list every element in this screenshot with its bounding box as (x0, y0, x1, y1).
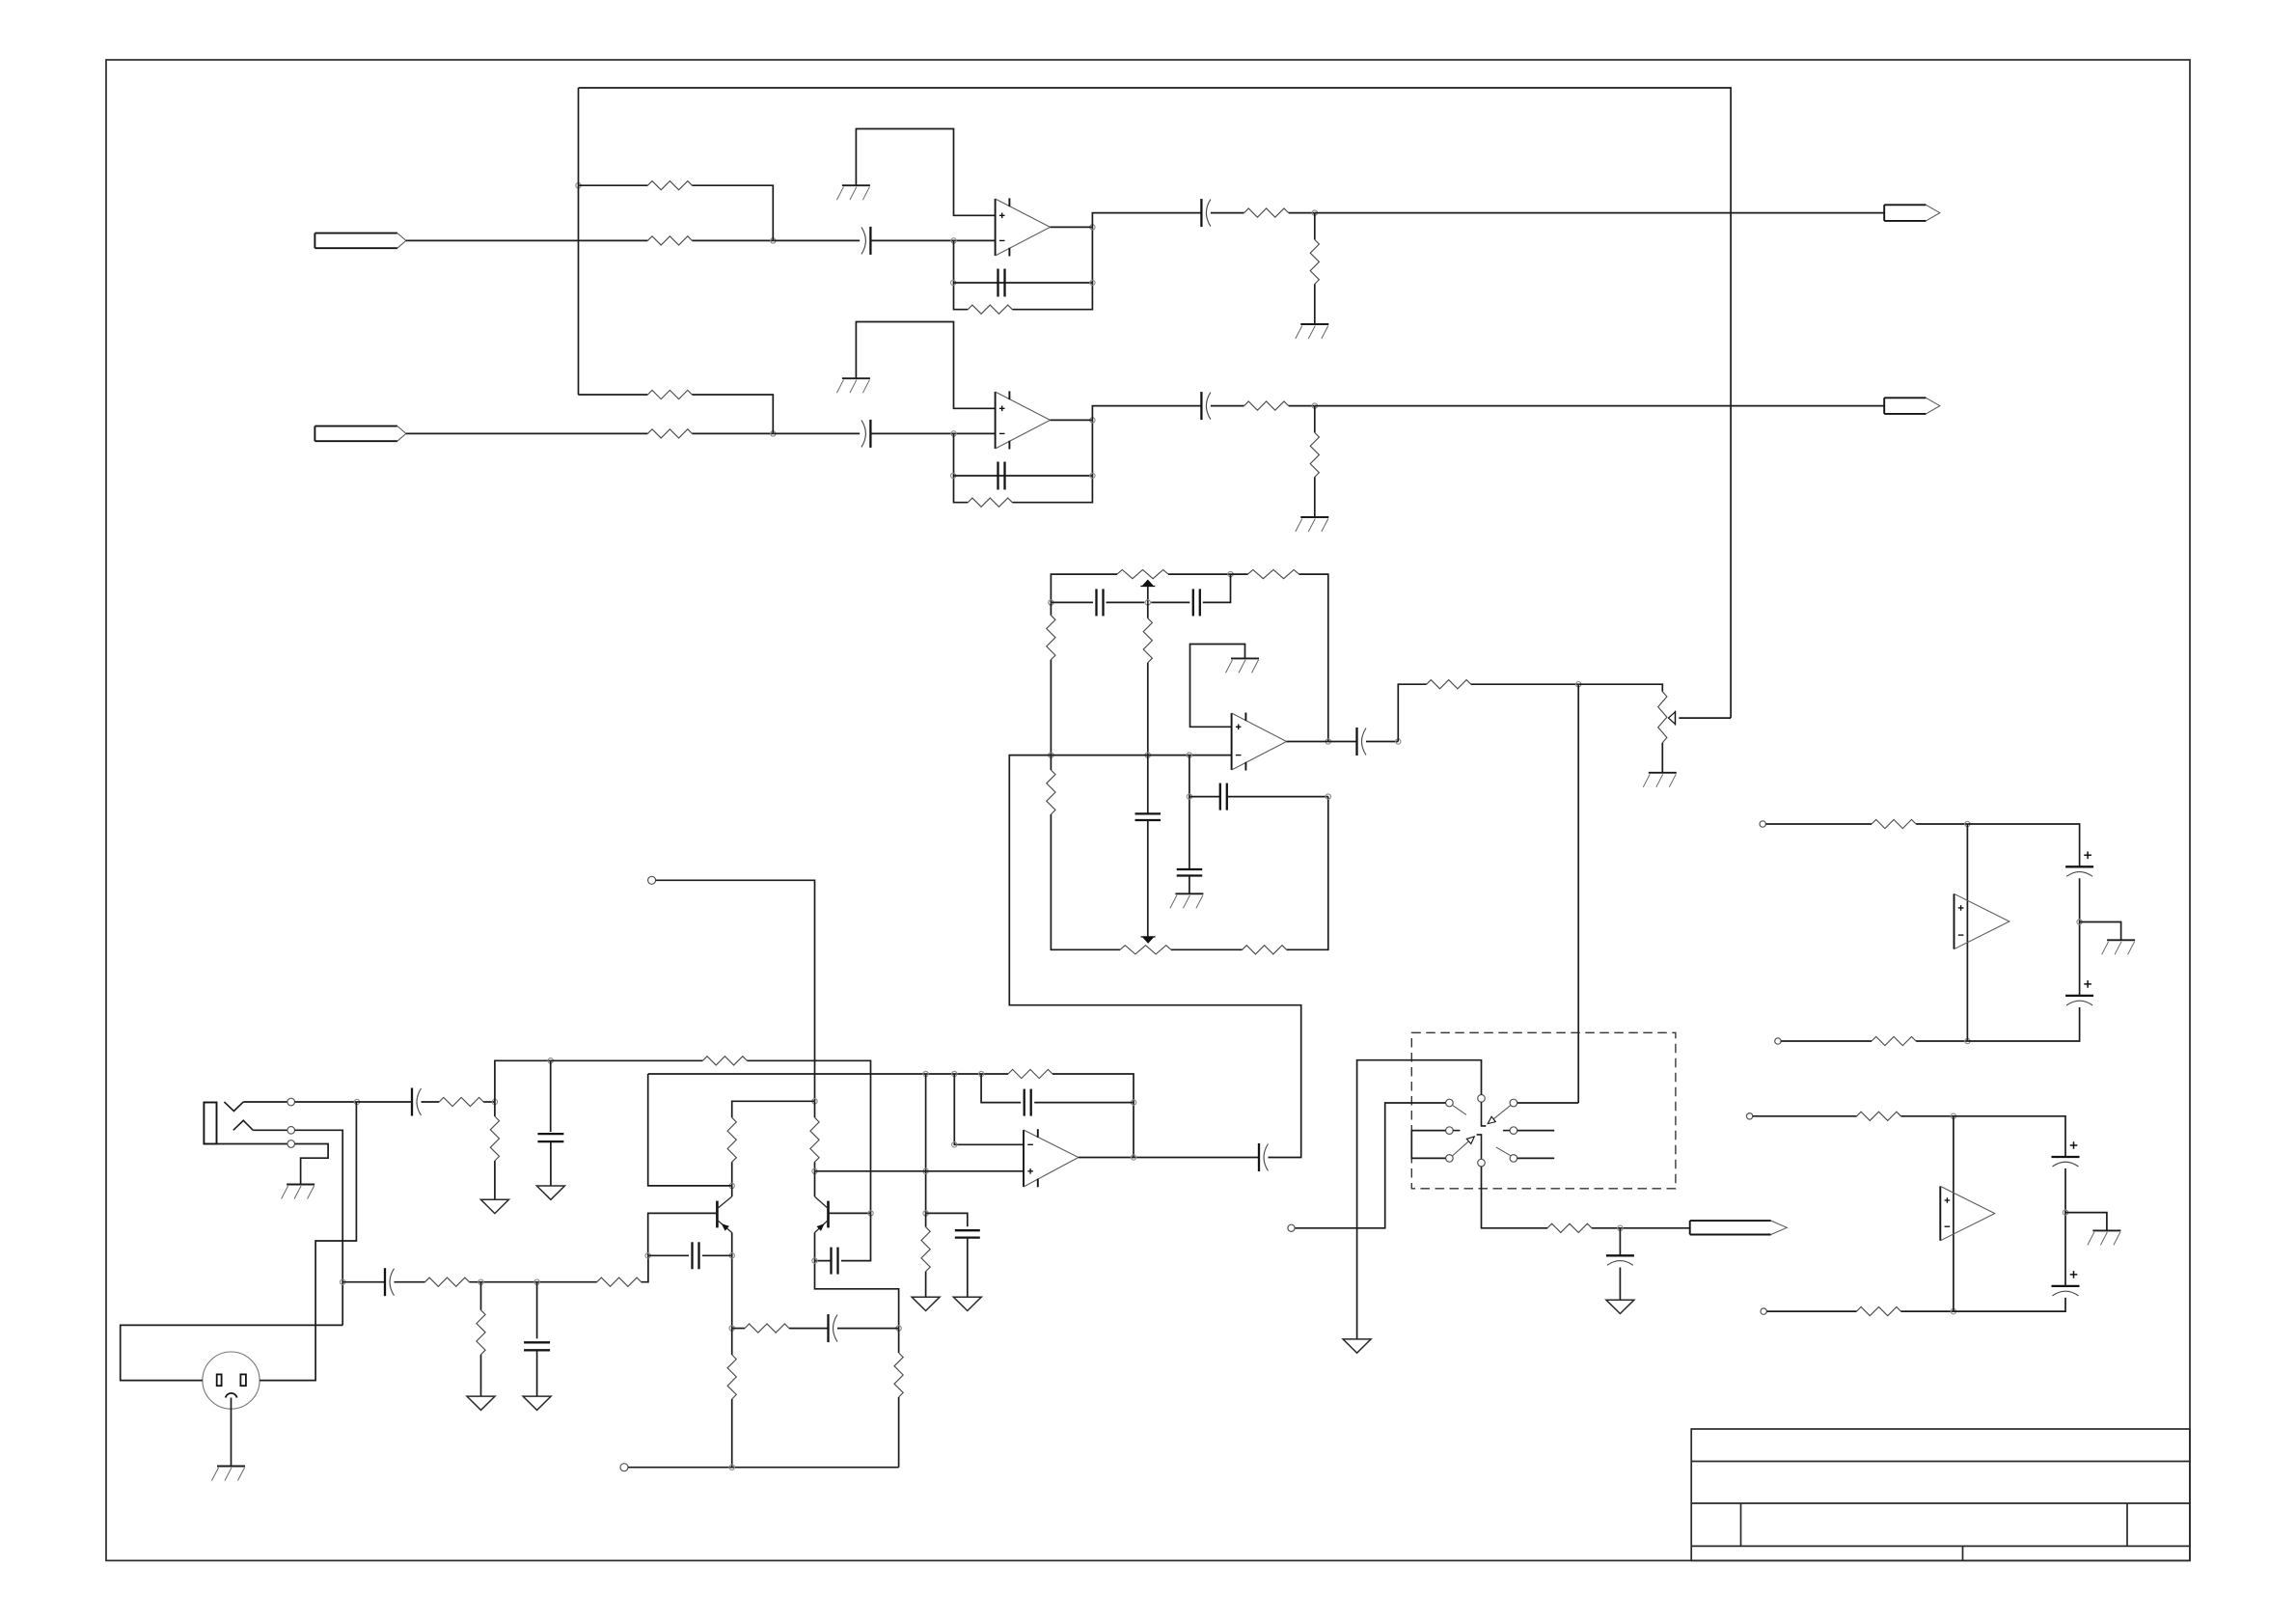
wire wiper R10 down to cap row (1147, 587, 1149, 603)
wire Q2 emitter down (815, 1233, 899, 1329)
wire riser to resistor R17 (1398, 684, 1426, 741)
op-amp U4 rail splitter (1954, 893, 2009, 948)
wire PSU1 bottom row to right vertical (1967, 1007, 2079, 1041)
node PSU2 bottom (1951, 1308, 1955, 1313)
node -input U2 corner (952, 1142, 957, 1147)
jack J3 tip spring (224, 1102, 243, 1112)
wire XLR pin2 to ring node (121, 1325, 343, 1380)
node PSU1 top (1965, 821, 1970, 826)
node feedback row a (923, 1071, 928, 1076)
ground under shunt resistor ch1 (1296, 324, 1329, 339)
resistor R16 bottom right (1243, 946, 1287, 954)
wire op-amp U2 output to node (1051, 419, 1093, 421)
wire cap C2a to inverting node (870, 432, 995, 434)
wire R2f to output vertical (1012, 420, 1092, 502)
node bias at +in row (923, 1168, 928, 1173)
wire R33 top lead (814, 1101, 816, 1117)
wire shunt resistor R28 down (494, 1102, 496, 1116)
wire shunt cap C21 down (550, 1060, 552, 1132)
pot R18 wiper arrow (1669, 711, 1676, 726)
pin connector PSU2 top (1746, 1113, 1752, 1119)
capacitor C18 PSU1 upper (2065, 852, 2093, 877)
switch mid stub right (1503, 1130, 1510, 1132)
XLR connector J4 body (203, 1352, 260, 1409)
node op-amp output ch2 (1090, 418, 1095, 423)
title block bottom divider (1962, 1546, 1964, 1560)
node mic hot (354, 1099, 359, 1104)
wire middle block left vertical top (1051, 574, 1117, 602)
wire C20 to resistor R26 (422, 1101, 440, 1103)
wire PSU1 mid cap segment (2079, 878, 2081, 996)
ground triangle switch common (1343, 1339, 1371, 1353)
pin connector PSU2 bottom (1761, 1308, 1766, 1314)
wire Q1 emitter down (731, 1233, 733, 1329)
wire -in node down to fb cap row (1189, 756, 1190, 869)
wire C15 to riser node (1366, 741, 1398, 743)
wire ground box to +input U2 (856, 322, 995, 409)
node after C15 (1396, 739, 1401, 744)
wire switch common top to ground rail (1357, 1060, 1482, 1339)
wire R26 to shunt node (483, 1101, 495, 1103)
wire cap C1o to series resistor (1211, 212, 1244, 214)
output connector OUT1 (1884, 205, 1940, 221)
wire PSU1 top pin to resistor (1765, 823, 1872, 825)
ground triangle under C23 (523, 1396, 551, 1410)
wire R17 to switch bus node (1471, 683, 1579, 685)
XLR pin 1 notch (226, 1393, 237, 1398)
resistor R23 PSU1 bottom (1872, 1036, 1916, 1045)
switch contact S1-C top center (1478, 1095, 1486, 1103)
ground PSU2 (2088, 1230, 2121, 1245)
node bias lower (923, 1211, 928, 1216)
wire PSU1 midpoint to ground (2080, 922, 2121, 941)
resistor R30 mic cold series 2 (597, 1278, 642, 1286)
node input junction ch1 (771, 238, 776, 243)
output connector OUT3 (1690, 1221, 1788, 1234)
capacitor C26 emitter coupling (829, 1314, 838, 1342)
pin connector PSU1 top (1760, 821, 1765, 827)
capacitor C11 twin-T right (1193, 589, 1200, 616)
input connector J2 (314, 426, 406, 442)
node mic hot shunt (492, 1099, 497, 1104)
node feedback cap right ch2 (1090, 473, 1095, 478)
resistor R12 left upper (1047, 616, 1055, 660)
wire C24 to emitter (702, 1254, 732, 1256)
wire PSU2 top resistor to node (1901, 1115, 1954, 1117)
wire C12 down to bottom wiper (1147, 820, 1149, 937)
resistor R1b series input (647, 236, 692, 245)
resistor R2b series input (647, 429, 692, 438)
wire input J2 to series resistor (406, 432, 648, 434)
jack contact sleeve (287, 1140, 295, 1148)
title block outline (1691, 1429, 2190, 1560)
capacitor C29 U2 output coupling (1259, 1143, 1269, 1171)
ground at op-amp U2 noninverting input (836, 378, 870, 393)
wire jack sleeve to contact (217, 1143, 288, 1145)
wire R27 to Q2 base column (747, 1060, 870, 1213)
wire vertical bus x599 (578, 88, 580, 395)
wire resistor R2b to node (692, 432, 773, 434)
wire Q1 base lead (648, 1213, 718, 1255)
resistor R2a feedback top (647, 390, 692, 398)
resistor R14 middle vertical (1143, 618, 1152, 663)
capacitor C1a input coupling (861, 227, 871, 255)
wire PSU2 top row to right vertical (1954, 1116, 2065, 1157)
capacitor C20 PSU2 upper (2052, 1141, 2080, 1167)
wire node to resistor R11 (1231, 573, 1248, 575)
wire pot R10 to node (1168, 573, 1231, 575)
wire output node up and right ch1 (1092, 213, 1201, 228)
wire output node to output tag ch2 (1315, 405, 1884, 407)
wire R38 to ground triangle (925, 1272, 927, 1298)
capacitor C20 mic hot coupling (412, 1088, 422, 1116)
wire jack tip to contact (243, 1101, 287, 1103)
wire shunt node up to top row (495, 1060, 551, 1102)
resistor R17 to switch bus (1427, 680, 1471, 689)
node inverting input ch1 (951, 238, 956, 243)
node collector supply (812, 1099, 817, 1104)
wire shunt resistor to ground ch2 (1314, 477, 1316, 517)
node PSU1 bottom (1965, 1038, 1970, 1043)
wire U2 output (1079, 1157, 1259, 1159)
node top row shunt cap (548, 1058, 553, 1063)
node feedback cap left ch2 (951, 473, 956, 478)
pin connector PSU1 bottom (1775, 1038, 1781, 1044)
capacitor C2a input coupling (861, 420, 871, 448)
switch contact S3-C bottom center (1478, 1159, 1486, 1167)
capacitor C2o output coupling (1201, 392, 1211, 420)
wire C27 to output vertical (1034, 1102, 1134, 1104)
node top row middle (1228, 571, 1233, 576)
switch contact S2-1 mid left (1446, 1127, 1454, 1135)
output connector OUT2 (1884, 398, 1940, 414)
resistor R1g shunt to ground (1310, 239, 1319, 284)
capacitor C12 middle vertical (1135, 813, 1162, 820)
wire supply pin to collector resistors (656, 880, 815, 1101)
node U2 fb cap right (1131, 1100, 1135, 1105)
wire PSU2 bottom resistor to node (1901, 1310, 1954, 1312)
pin connector P1 supply (648, 876, 656, 884)
node switch bus tap (1576, 682, 1581, 687)
XLR pin 3 square (240, 1374, 246, 1386)
wire contact S1-1 to external pin (1295, 1103, 1446, 1228)
pin connector P3 (1288, 1224, 1295, 1231)
wire cap C1a to inverting node (870, 239, 995, 241)
wire bias column (925, 1074, 927, 1213)
capacitor C19 PSU1 lower (2065, 980, 2093, 1005)
node cap row middle (1145, 600, 1150, 605)
wire C13 to right vertical (1227, 796, 1328, 798)
wire R34 to cap C26 (789, 1328, 829, 1330)
wire Q1 base node to cap (648, 1254, 689, 1256)
wire C10 to middle node (1107, 601, 1145, 603)
node feedback cap left ch1 (951, 280, 956, 285)
title block cell divider right (2126, 1503, 2128, 1546)
ground at U3 +input (1226, 658, 1260, 673)
wire PSU1 bottom resistor to node (1916, 1040, 1967, 1042)
wire Q1 emitter resistor down (731, 1329, 733, 1355)
node feedback cap row left U3 (1187, 794, 1191, 799)
wire R1o to shunt node (1289, 212, 1315, 214)
wire bias node to cap C28 (926, 1213, 968, 1226)
switch enclosure dashed box (1411, 1032, 1676, 1189)
ground triangle under C21 (536, 1186, 564, 1199)
node output shunt ch1 (1312, 210, 1317, 215)
wire shunt node down ch1 (1314, 213, 1316, 240)
wire C26 to emitter row right (837, 1328, 899, 1330)
wire top row to resistor R27 (551, 1059, 703, 1061)
ground triangle under R28 (480, 1199, 508, 1213)
node -input row left (1049, 753, 1053, 757)
node PSU1 midpoint (2077, 920, 2082, 924)
wire R14 to -input row (1147, 663, 1149, 756)
potentiometer R10 top (zigzag) (1117, 570, 1168, 579)
jack J3 sleeve body (204, 1103, 216, 1144)
wire U3 output to cap C15 (1287, 741, 1357, 743)
op-amp U5 rail splitter (1940, 1186, 1995, 1240)
wire C16 to ground triangle (1619, 1268, 1621, 1301)
resistor R1a feedback top (647, 181, 692, 190)
resistor R28 mic hot shunt (490, 1116, 499, 1161)
wire emitter row left segment (732, 1328, 745, 1330)
wire feedback cap row ch2 (953, 475, 1092, 477)
wire output node down to cap C16 (1619, 1228, 1621, 1256)
wire feedback row to U2 (648, 1073, 1008, 1075)
wire PSU2 bottom pin to resistor (1766, 1310, 1856, 1312)
switch contact S1-1 top left (1446, 1099, 1454, 1107)
wire output node up and right ch2 (1092, 406, 1201, 421)
wire switch common bottom to output row (1482, 1167, 1548, 1228)
wire -input U2 (954, 1074, 1024, 1144)
resistor R2o series output (1244, 401, 1289, 410)
wire R1f to output vertical (1012, 227, 1092, 309)
node -input row middle (1145, 753, 1150, 757)
node Q2 collector (812, 1168, 817, 1173)
switch contact S2-2 mid right (1510, 1127, 1517, 1135)
resistor R22 PSU1 top (1872, 819, 1916, 828)
capacitor C15 U3 output coupling (1357, 728, 1367, 756)
switch contact S3-2 bottom right (1510, 1155, 1517, 1163)
pin connector P2 return (620, 1464, 628, 1471)
wire left vertical to R13 (1050, 756, 1052, 770)
wire feedback cap row ch1 (953, 282, 1092, 284)
wire node to coupling cap C2a (773, 432, 860, 434)
wire node to cap C22 (342, 1281, 385, 1283)
resistor R11 top right (1248, 570, 1299, 579)
wire output node to output tag ch1 (1315, 212, 1884, 214)
wire resistor R1b to node (692, 239, 773, 241)
transistor Q2 (PNP) (815, 1171, 829, 1233)
wire R13 to bottom row (1051, 814, 1120, 949)
node mic cold shunt C (534, 1279, 539, 1284)
wire +input row U2 (815, 1170, 1025, 1172)
wire inverting node down to feedback ch1 (954, 240, 969, 309)
node Q1 base-emitter cap right (729, 1253, 734, 1258)
op-amp U1 (996, 198, 1051, 256)
ground triangle under C28 (953, 1297, 981, 1310)
switch contact S3-1 bottom left (1446, 1155, 1454, 1163)
ground jack sleeve (282, 1185, 315, 1199)
switch contact S1-2 top right (1510, 1099, 1517, 1107)
wire cap C2o to series resistor (1211, 405, 1244, 407)
wire bus tap to resistor R1a (579, 184, 648, 186)
wire R18 bottom to ground (1661, 743, 1663, 773)
resistor R13 left lower (1047, 770, 1055, 814)
node emitter row right (896, 1326, 901, 1331)
wire Q2 base lead (829, 1212, 871, 1214)
wire contacts S2-1 to S3-1 link (1411, 1131, 1445, 1159)
wire C25 to Q2 emitter vertical (815, 1260, 832, 1262)
capacitor C23 mic cold shunt (524, 1342, 550, 1350)
wire C23 to ground triangle (536, 1350, 538, 1396)
wire R35 to bottom rail (731, 1399, 733, 1468)
node op-amp output ch1 (1090, 225, 1095, 230)
wire switch top contact to bus (1517, 1102, 1579, 1104)
wire node to right pot (1578, 684, 1662, 692)
title block row line 1 (1691, 1461, 2190, 1463)
capacitor C21 PSU2 lower (2052, 1271, 2080, 1296)
resistor R32 Q1 collector load (727, 1117, 736, 1162)
capacitor C27 U2 feedback (1025, 1089, 1031, 1116)
wire middle node to C11 (1151, 601, 1189, 603)
wire R33 to Q2 collector node (814, 1162, 816, 1171)
capacitor C10 twin-T left (1097, 589, 1104, 616)
wire PSU2 divider vertical (1953, 1116, 1954, 1311)
resistor R38 bias to ground (921, 1227, 930, 1272)
resistor R31 mic cold shunt (477, 1310, 485, 1355)
wire -input row (1051, 755, 1231, 756)
jack contact tip (287, 1098, 295, 1106)
wire R29 to shunt nodes (470, 1281, 597, 1283)
title block row line 2 (1691, 1502, 2190, 1504)
node cap row left (1049, 600, 1053, 605)
wire op-amp U1 output to node (1051, 226, 1093, 228)
ground under shunt resistor ch2 (1296, 517, 1329, 532)
node U2 output (1131, 1155, 1135, 1160)
wire tip contact to node (295, 1101, 358, 1103)
capacitor C28 bias bypass (955, 1230, 980, 1237)
capacitor C14 to ground (1177, 869, 1203, 876)
node PSU2 midpoint (2063, 1210, 2067, 1215)
node bus tap ch1 (576, 183, 581, 188)
switch arm with arrow bottom left (1452, 1137, 1474, 1156)
switch arm bottom right (1496, 1147, 1511, 1156)
wire C22 to resistor R29 (395, 1281, 425, 1283)
resistor R2f feedback (968, 498, 1012, 507)
capacitor C13 U3 feedback (1220, 783, 1227, 810)
wire top bus from channel node to right pot wiper (579, 88, 1732, 718)
wire XLR pin3 to tip node (260, 1102, 356, 1381)
resistor R29 mic cold series (425, 1278, 470, 1286)
node bottom rail (729, 1465, 734, 1470)
wire R2a to corner down ch2 (692, 395, 773, 433)
wire shunt resistor to ground ch1 (1314, 284, 1316, 324)
node U3 output (1326, 739, 1330, 744)
node input junction ch2 (771, 431, 776, 436)
pot R15 wiper arrow (1141, 937, 1156, 944)
node emitter row left (729, 1326, 734, 1331)
capacitor C1f feedback (998, 269, 1005, 297)
potentiometer R15 bottom (zigzag) (1120, 946, 1171, 954)
wire PSU2 mid cap segment (2064, 1168, 2066, 1286)
switch arm with arrow top right (1488, 1105, 1511, 1123)
wire ring contact to low path (295, 1130, 343, 1325)
wire R37 to output vertical (1052, 1074, 1134, 1158)
wire middle vertical to C12 (1147, 756, 1149, 814)
wire contact S2-2 stub (1517, 1130, 1555, 1132)
wire C28 to ground triangle (967, 1238, 969, 1298)
resistor R1f feedback (968, 305, 1012, 314)
wire PSU1 divider vertical (1966, 824, 1968, 1041)
wire shunt cap C23 down (536, 1282, 538, 1339)
wire R11 to right vertical (1299, 574, 1328, 741)
wire R31 to ground triangle (480, 1355, 482, 1396)
wire XLR shell to ground (231, 1398, 232, 1467)
title block cell divider left (1740, 1503, 1742, 1546)
potentiometer R18 level (zigzag) (1658, 692, 1667, 743)
wire C29 up to middle block (1009, 756, 1300, 1158)
wire left vertical to R12 (1050, 602, 1052, 615)
switch mid stub left (1453, 1130, 1460, 1132)
op-amp U3 (1232, 713, 1287, 771)
wire R12 to -in row (1050, 660, 1052, 756)
op-amp U2 (996, 391, 1051, 449)
ground triangle under R31 (467, 1396, 495, 1410)
wire cap row left segment (1051, 601, 1093, 603)
node Q2 emitter cap row (812, 1258, 817, 1263)
pot R10 wiper arrow (1140, 580, 1155, 587)
wire corner to resistor R2a (578, 394, 647, 396)
wire R32 to Q1 collector node (731, 1162, 733, 1186)
node inverting input ch2 (951, 431, 956, 436)
wire bottom row middle segment (1171, 948, 1243, 950)
wire node to cap C20 (357, 1101, 412, 1103)
wire PSU2 bottom row to right vertical (1954, 1298, 2065, 1311)
wire Q1 collector node to feedback row (648, 1074, 732, 1186)
node feedback cap row right U3 (1326, 794, 1330, 799)
ground XLR shell (212, 1467, 246, 1481)
resistor R33 Q2 collector load (810, 1117, 819, 1162)
capacitor C16 output to ground (1606, 1255, 1634, 1265)
ground at op-amp U1 noninverting input (836, 185, 870, 200)
resistor R27 bias feed (702, 1057, 747, 1065)
wire R16 to right vertical (1287, 797, 1328, 950)
node Q2 base (868, 1211, 873, 1216)
ground under pot R18 (1643, 773, 1677, 787)
resistor R26 mic hot series (439, 1097, 483, 1106)
wire R2o to shunt node (1289, 405, 1315, 407)
wire R18 wiper to bus (1679, 717, 1731, 719)
wire fb cap row U2 (981, 1074, 1021, 1103)
wire +input U3 ground loop (1190, 645, 1245, 728)
wire bottom rail (628, 1467, 899, 1469)
wire PSU1 bottom pin to resistor (1781, 1040, 1872, 1042)
node output shunt ch2 (1312, 403, 1317, 408)
wire C21 to ground triangle (550, 1141, 552, 1186)
node PSU2 top (1951, 1113, 1955, 1118)
wire contact S3-2 stub (1517, 1157, 1555, 1159)
wire R36 to bottom rail (898, 1397, 900, 1468)
node Q1 base network (645, 1253, 650, 1258)
ground PSU1 (2102, 940, 2136, 954)
switch pole stub bottom (1477, 1135, 1482, 1159)
wire shunt resistor R31 down (480, 1282, 482, 1310)
title block row line 3 (1691, 1545, 2190, 1547)
node output low-pass (1618, 1225, 1623, 1230)
node -input at U3 (1187, 753, 1191, 757)
XLR pin 2 square (217, 1374, 222, 1386)
wire R30 to Q1 base column (642, 1255, 648, 1281)
